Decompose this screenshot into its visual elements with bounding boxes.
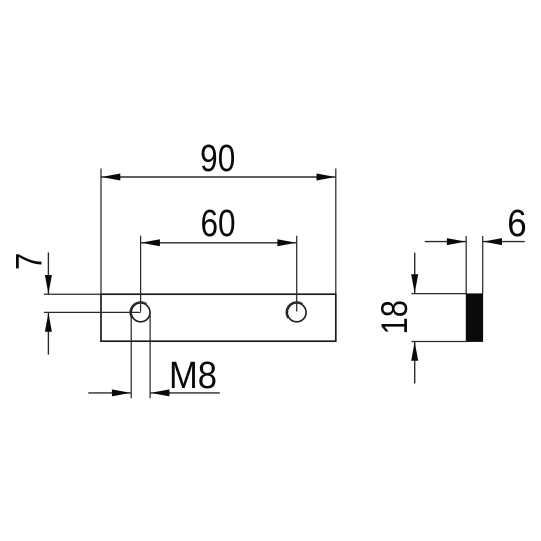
svg-text:6: 6 [507,202,526,245]
dimension 6: extension line left [465,236,467,294]
hole right (tap drill circle) [287,303,306,322]
dimension 90: arrowhead left [101,174,120,181]
dimension 60: arrowhead right [277,239,296,246]
dimension M8: dimension line left outside segment [88,392,131,394]
dimension 6: arrowhead pointing right [447,238,466,245]
dimension 18: arrowhead up [411,342,418,361]
centerline left hole horizontal [44,311,141,313]
dimension 18: dimension line lower segment [414,342,416,384]
dimension 90: extension line left [100,169,102,295]
dimension 6: dimension line left outside segment [425,241,466,243]
centerline right hole vertical [296,236,298,312]
hole right thread arc M8 [286,302,303,319]
dimension 6: dimension line right outside segment [483,241,525,243]
dimension 7: arrowhead up [45,313,52,332]
dimension M8: extension line left (hole tangent) [130,312,132,398]
dimension 90: extension line right [335,169,337,295]
dimension 90: dimension line [101,176,336,178]
side view section (solid black cross-section) [466,294,482,342]
dimension M8: dimension line right outside segment [150,392,220,394]
plate outline (front view) [101,294,336,341]
dimension 6: arrowhead pointing left [483,238,502,245]
svg-text:7: 7 [9,253,50,270]
dimension 7: extension line top (plate top edge extended) [44,293,102,295]
dimension 7: dimension line lower segment [47,312,49,354]
hole left (tap drill circle) [131,303,150,322]
dimension 60: dimension line [141,242,297,244]
dimension 6: extension line right [482,236,484,294]
dimension 90: arrowhead right [317,174,336,181]
dimension M8: arrowhead pointing left [150,389,169,396]
dimension 18: extension line bottom [412,341,467,343]
svg-text:60: 60 [200,202,235,244]
svg-text:18: 18 [374,300,415,335]
dimension 7: dimension line upper segment [47,253,49,295]
dimension 18: extension line top [412,293,467,295]
dimension 60: arrowhead left [141,239,160,246]
dimension M8: extension line right (hole tangent) [149,312,151,398]
svg-text:90: 90 [200,137,235,179]
centerline left hole vertical [140,236,142,312]
svg-text:M8: M8 [169,353,217,396]
hole left thread arc M8 [130,302,147,319]
dimension 18: arrowhead down [411,274,418,293]
dimension 7: arrowhead down [45,275,52,294]
dimension M8: arrowhead pointing right [112,389,131,396]
dimension 18: dimension line upper segment [414,253,416,294]
